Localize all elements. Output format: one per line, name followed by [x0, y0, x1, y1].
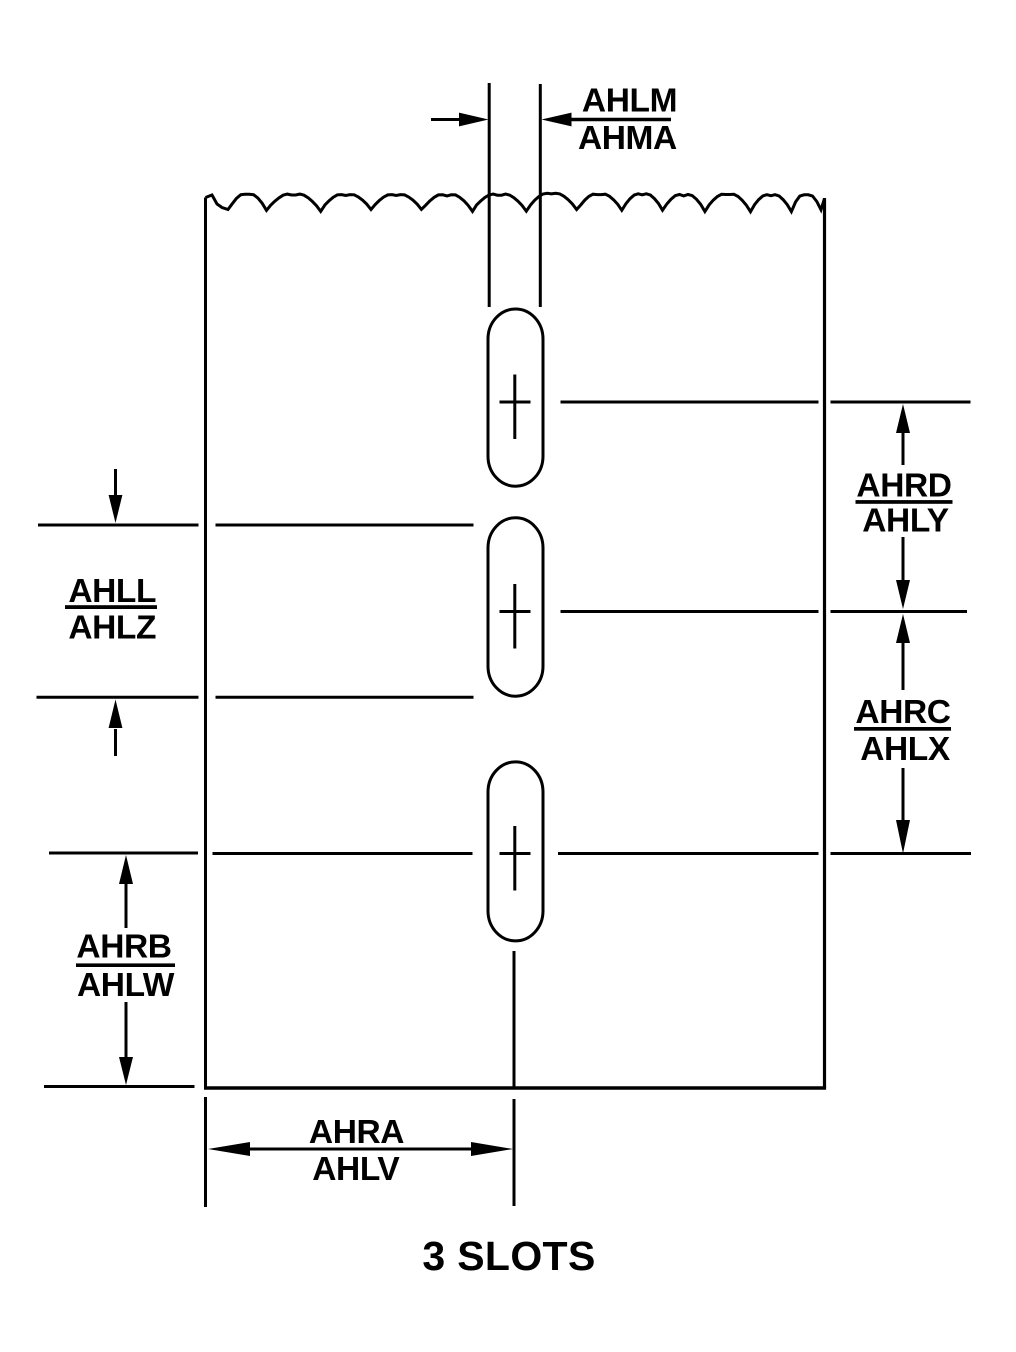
AHRB down arrowhead	[119, 1057, 133, 1085]
AHRD up arrow shaft	[902, 432, 905, 465]
svg-text:AHRB: AHRB	[76, 929, 171, 966]
slot 1 centerline right outside plate	[831, 401, 971, 404]
slot 3 centerline right inside plate	[558, 852, 819, 855]
AHRB bottom reference line	[44, 1085, 195, 1088]
AHRC up arrow shaft	[902, 643, 905, 690]
AHRD down arrowhead	[896, 580, 910, 609]
svg-text:AHMA: AHMA	[578, 120, 677, 157]
wavy break line (plate top edge)	[206, 193, 825, 211]
svg-text:AHLZ: AHLZ	[68, 610, 156, 647]
AHRA right arrowhead	[471, 1142, 513, 1156]
AHLL down arrowhead	[109, 495, 123, 523]
AHRB up arrow shaft	[125, 883, 128, 928]
AHLL bottom reference line left segment	[37, 696, 199, 699]
plate right edge	[823, 198, 826, 1088]
AHLM right arrowhead	[542, 113, 572, 127]
AHLL up arrow shaft	[114, 729, 117, 756]
slot 2 centerline right inside plate	[561, 610, 819, 613]
svg-text:AHLY: AHLY	[862, 503, 949, 540]
AHRB fraction bar	[76, 963, 175, 967]
AHRD down arrow shaft	[902, 537, 905, 581]
slot width extension line right	[539, 84, 542, 307]
AHLL fraction bar	[65, 605, 157, 609]
svg-text:AHLL: AHLL	[68, 573, 156, 610]
slot 3 centerline right outside plate	[831, 852, 972, 855]
slot 3 outline	[488, 762, 543, 941]
svg-text:AHRA: AHRA	[309, 1114, 404, 1151]
AHRC fraction bar	[854, 727, 951, 731]
slot 3 centerline left outer segment	[49, 852, 198, 855]
slot 3 centerline left inside plate	[213, 852, 473, 855]
AHLL top reference line left segment	[38, 524, 199, 527]
plate bottom edge	[204, 1086, 826, 1089]
AHRC down arrow shaft	[902, 768, 905, 821]
slot 2 centerline right outside plate	[831, 610, 968, 613]
svg-text:AHLM: AHLM	[582, 83, 677, 120]
AHRD up arrowhead	[896, 404, 910, 433]
AHLM dimension leader left shaft	[431, 118, 461, 121]
AHRC down arrowhead	[896, 820, 910, 854]
slot width extension line left	[488, 83, 491, 307]
AHRB down arrow shaft	[125, 1002, 128, 1058]
svg-text:AHRD: AHRD	[856, 467, 951, 504]
AHLM dimension leader right shaft / fraction bar	[570, 118, 671, 122]
AHRB up arrowhead	[119, 855, 133, 884]
AHLL bottom reference line right segment	[216, 696, 474, 699]
AHRC up arrowhead	[896, 614, 910, 643]
slot 2 outline	[488, 518, 543, 696]
AHRD fraction bar	[856, 500, 953, 504]
slot 3 center mark cross	[500, 826, 531, 891]
svg-text:AHLV: AHLV	[312, 1151, 400, 1188]
slot 3 lower centerline inside plate	[513, 951, 516, 1087]
slot 3 centerline extension below plate	[513, 1099, 516, 1206]
svg-text:3 SLOTS: 3 SLOTS	[422, 1233, 595, 1279]
slot 1 outline	[488, 309, 543, 486]
AHLM left arrowhead	[459, 113, 489, 127]
plate left edge	[204, 198, 207, 1089]
svg-text:AHLX: AHLX	[860, 731, 951, 768]
slot 1 centerline right inside plate	[561, 401, 819, 404]
AHRA dimension shaft	[249, 1148, 472, 1151]
slot 1 center mark cross	[500, 375, 531, 440]
AHLL up arrowhead	[109, 700, 123, 729]
AHLL top reference line right segment	[216, 524, 474, 527]
svg-text:AHRC: AHRC	[855, 694, 950, 731]
svg-text:AHLW: AHLW	[77, 967, 175, 1004]
AHLL down arrow shaft	[114, 469, 117, 497]
slot 2 center mark cross	[500, 584, 531, 649]
AHRA left arrowhead	[208, 1142, 250, 1156]
bottom extension line left (plate corner)	[204, 1097, 207, 1207]
